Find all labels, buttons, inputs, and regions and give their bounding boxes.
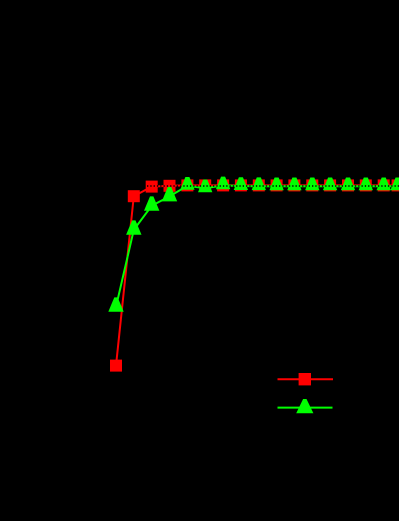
green series line: [116, 185, 398, 306]
red square marker point 4: [181, 179, 193, 191]
red square marker point 14: [360, 179, 372, 191]
red square marker point 0: [110, 360, 122, 372]
green triangle marker point 13: [341, 178, 355, 191]
red square marker point 3: [164, 180, 176, 192]
red square marker point 8: [253, 179, 265, 191]
legend green triangle sample: [296, 399, 313, 413]
green triangle marker point 4: [180, 177, 194, 190]
red square marker point 6: [217, 179, 229, 191]
green triangle marker point 14: [359, 178, 373, 191]
red square marker point 5: [199, 179, 211, 191]
green triangle marker point 11: [305, 178, 319, 191]
red square marker point 7: [235, 179, 247, 191]
green triangle marker point 15: [377, 178, 391, 191]
red square marker point 2: [146, 181, 158, 193]
black dotted asymptote line: [48, 185, 399, 187]
red square marker point 1: [128, 190, 140, 202]
green triangle marker point 0: [108, 297, 123, 311]
red square marker point 12: [324, 179, 336, 191]
green triangle marker point 6: [216, 177, 230, 190]
green triangle marker point 9: [269, 178, 283, 191]
green triangle marker point 8: [252, 177, 266, 190]
green triangle marker point 3: [162, 187, 177, 201]
red square marker point 11: [306, 179, 318, 191]
legend green line sample: [278, 407, 333, 409]
green triangle marker point 10: [287, 178, 301, 191]
red square marker point 9: [271, 179, 283, 191]
legend red square sample: [299, 373, 311, 385]
red series line: [116, 185, 398, 365]
red square marker point 10: [288, 179, 300, 191]
green triangle marker point 5: [198, 180, 212, 193]
red square marker point 13: [342, 179, 354, 191]
green triangle marker point 16: [390, 178, 399, 191]
green triangle marker point 2: [144, 196, 159, 210]
red square marker point 15: [378, 179, 390, 191]
green triangle marker point 1: [126, 220, 141, 234]
legend red line sample: [278, 378, 334, 380]
red square marker point 16: [392, 179, 399, 191]
green triangle marker point 7: [234, 177, 248, 190]
green triangle marker point 12: [323, 178, 337, 191]
